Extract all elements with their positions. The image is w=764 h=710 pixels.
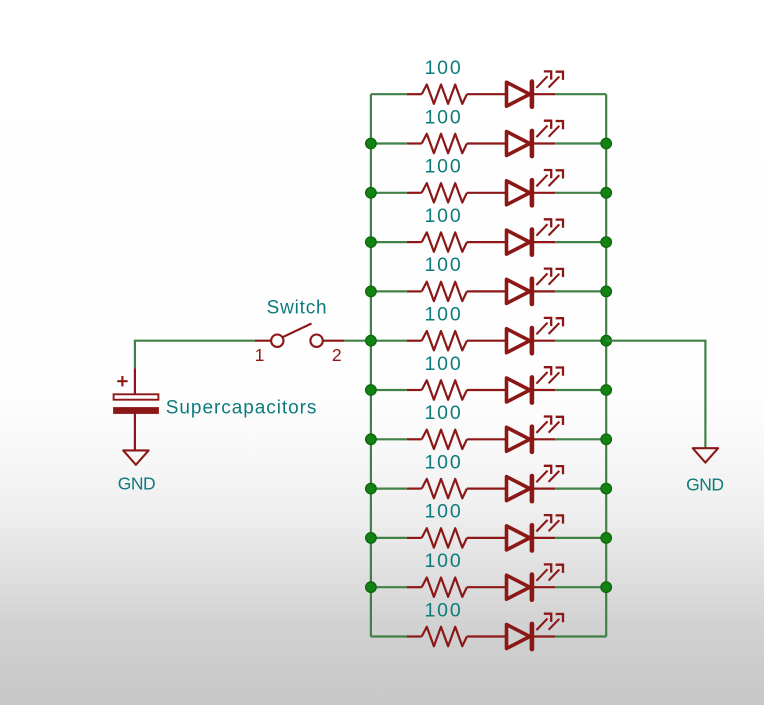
LED D5 — [507, 269, 564, 304]
junction right bus row 11 — [601, 582, 612, 593]
resistor R7 (100 ohm) — [407, 380, 507, 399]
wire left bus to R1 — [371, 93, 407, 95]
svg-text:100: 100 — [425, 106, 463, 128]
wire left bus to R4 — [371, 241, 407, 243]
wire switch to left bus — [344, 340, 371, 342]
LED D3 — [507, 170, 564, 205]
LED D12 — [507, 614, 564, 649]
junction left bus row 9 — [366, 483, 377, 494]
ground symbol right — [693, 448, 718, 462]
svg-text:100: 100 — [425, 57, 463, 79]
resistor R11 (100 ohm) — [407, 578, 507, 597]
svg-text:100: 100 — [425, 402, 463, 424]
wire left bus to R7 — [371, 389, 407, 391]
LED D9 — [507, 466, 564, 501]
svg-text:GND: GND — [686, 475, 723, 495]
junction left bus row 3 — [366, 188, 377, 199]
resistor R6 (100 ohm) — [407, 331, 507, 350]
junction right bus row 9 — [601, 483, 612, 494]
svg-text:100: 100 — [425, 353, 463, 375]
junction right bus row 2 — [601, 138, 612, 149]
wire left bus — [370, 94, 372, 636]
svg-text:GND: GND — [118, 473, 155, 493]
wire D2 to right bus — [555, 142, 606, 144]
resistor R1 (100 ohm) — [407, 85, 507, 104]
wire D9 to right bus — [555, 488, 606, 490]
junction right bus row 6 — [601, 335, 612, 346]
switch SW1 — [255, 324, 345, 347]
LED D4 — [507, 219, 564, 254]
wire right bus to ground — [606, 341, 705, 449]
wire D3 to right bus — [555, 192, 606, 194]
LED D11 — [507, 564, 564, 599]
junction left bus row 11 — [366, 582, 377, 593]
junction left bus row 4 — [366, 237, 377, 248]
wire D12 to right bus — [555, 635, 606, 637]
wire D7 to right bus — [555, 389, 606, 391]
resistor R3 (100 ohm) — [407, 183, 507, 202]
wire left bus to R8 — [371, 438, 407, 440]
wire left bus to R3 — [371, 192, 407, 194]
wire D6 to right bus — [555, 340, 606, 342]
junction left bus row 2 — [366, 138, 377, 149]
junction left bus row 5 — [366, 286, 377, 297]
wire left bus to R11 — [371, 586, 407, 588]
LED D7 — [507, 367, 564, 402]
svg-text:100: 100 — [425, 501, 463, 523]
svg-text:100: 100 — [425, 205, 463, 227]
svg-text:100: 100 — [425, 451, 463, 473]
junction right bus row 4 — [601, 237, 612, 248]
svg-text:1: 1 — [255, 345, 265, 365]
resistor R12 (100 ohm) — [407, 627, 507, 646]
svg-text:100: 100 — [425, 254, 463, 276]
junction right bus row 5 — [601, 286, 612, 297]
svg-text:100: 100 — [425, 550, 463, 572]
svg-text:Supercapacitors: Supercapacitors — [166, 398, 318, 419]
LED D6 — [507, 318, 564, 353]
resistor R2 (100 ohm) — [407, 134, 507, 153]
capacitor C1 Supercapacitors — [114, 368, 159, 450]
junction right bus row 7 — [601, 385, 612, 396]
resistor R9 (100 ohm) — [407, 479, 507, 498]
LED D10 — [507, 515, 564, 550]
junction right bus row 3 — [601, 188, 612, 199]
wire left bus to R5 — [371, 290, 407, 292]
wire D8 to right bus — [555, 438, 606, 440]
svg-text:100: 100 — [425, 156, 463, 178]
wire D11 to right bus — [555, 586, 606, 588]
junction left bus row 10 — [366, 533, 377, 544]
wire D5 to right bus — [555, 290, 606, 292]
LED D2 — [507, 121, 564, 156]
wire D10 to right bus — [555, 537, 606, 539]
ground symbol left — [123, 450, 148, 464]
wire left bus to R9 — [371, 488, 407, 490]
LED D1 — [507, 71, 564, 106]
svg-text:100: 100 — [425, 304, 463, 326]
wire D4 to right bus — [555, 241, 606, 243]
resistor R10 (100 ohm) — [407, 528, 507, 547]
svg-text:Switch: Switch — [267, 298, 328, 319]
junction left bus row 7 — [366, 385, 377, 396]
resistor R4 (100 ohm) — [407, 232, 507, 251]
resistor R8 (100 ohm) — [407, 430, 507, 449]
wire D1 to right bus — [555, 93, 606, 95]
wire left bus to R12 — [371, 635, 407, 637]
junction right bus row 10 — [601, 533, 612, 544]
svg-text:2: 2 — [332, 345, 342, 365]
resistor R5 (100 ohm) — [407, 282, 507, 301]
wire left bus to R10 — [371, 537, 407, 539]
wire left bus to R6 — [371, 340, 407, 342]
junction left bus row 6 — [366, 335, 377, 346]
svg-text:100: 100 — [425, 599, 463, 621]
wire from capacitor to switch — [135, 341, 255, 369]
polarity plus sign of C1 — [117, 376, 127, 386]
junction right bus row 8 — [601, 434, 612, 445]
wire right bus — [605, 94, 607, 636]
LED D8 — [507, 417, 564, 452]
junction left bus row 8 — [366, 434, 377, 445]
wire left bus to R2 — [371, 142, 407, 144]
